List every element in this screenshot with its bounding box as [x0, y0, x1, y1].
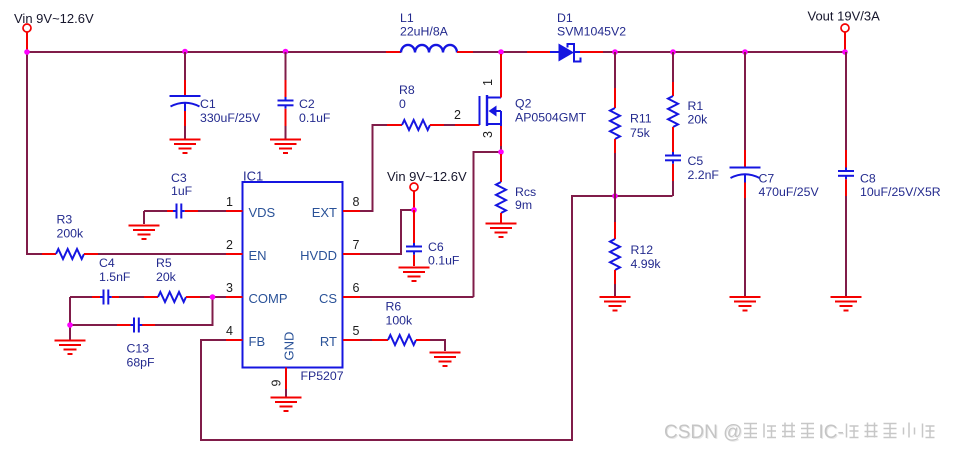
- capacitor C5: [665, 152, 681, 181]
- diode D1: [527, 43, 603, 63]
- svg-text:C4: C4: [99, 256, 115, 270]
- resistor R6: [372, 335, 430, 345]
- junction: [24, 49, 30, 55]
- label C5: [688, 154, 720, 182]
- svg-text:CSDN @: CSDN @: [664, 422, 742, 443]
- svg-text:1: 1: [226, 195, 233, 209]
- resistor R3: [42, 249, 98, 259]
- label R11: [630, 112, 652, 140]
- svg-text:2.2nF: 2.2nF: [688, 168, 720, 182]
- resistor R1: [668, 82, 678, 152]
- svg-text:FP5207: FP5207: [301, 369, 344, 383]
- ground: [430, 353, 461, 367]
- svg-text:1uF: 1uF: [171, 184, 193, 198]
- label R3: [57, 213, 85, 241]
- svg-text:VDS: VDS: [249, 205, 276, 220]
- port Vin 2: [410, 183, 418, 208]
- wire R1 branch: [672, 52, 674, 196]
- svg-text:R6: R6: [386, 300, 402, 314]
- junction: [742, 49, 748, 55]
- junction: [283, 49, 289, 55]
- ground: [831, 297, 862, 311]
- svg-text:8: 8: [353, 195, 360, 209]
- pin 4 FB: [226, 324, 265, 349]
- svg-text:Vin 9V~12.6V: Vin 9V~12.6V: [387, 169, 467, 184]
- label C8: [860, 172, 941, 200]
- svg-text:R5: R5: [156, 256, 172, 270]
- wire CS row: [360, 296, 474, 298]
- svg-text:1: 1: [481, 79, 495, 86]
- svg-text:5: 5: [353, 324, 360, 338]
- svg-text:1.5nF: 1.5nF: [99, 270, 131, 284]
- svg-text:Q2: Q2: [515, 97, 532, 111]
- svg-text:470uF/25V: 470uF/25V: [759, 185, 820, 199]
- svg-text:20k: 20k: [156, 270, 177, 284]
- label R6: [386, 300, 414, 328]
- wire top rail: [27, 51, 845, 53]
- wire COMP row and C13 loop: [70, 297, 226, 340]
- resistor Rcs: [496, 154, 506, 223]
- label C4: [99, 256, 131, 284]
- resistor R11: [610, 88, 620, 153]
- capacitor C6: [406, 210, 422, 266]
- transistor Q2: [455, 54, 501, 146]
- ground: [399, 268, 430, 282]
- svg-text:FB: FB: [249, 334, 266, 349]
- svg-text:75k: 75k: [630, 126, 651, 140]
- ground: [271, 398, 302, 412]
- pin 8 EXT: [312, 195, 360, 220]
- label C13: [127, 342, 156, 370]
- capacitor C8: [838, 150, 854, 196]
- svg-text:10uF/25V/X5R: 10uF/25V/X5R: [860, 185, 941, 199]
- wire R11 branch: [614, 52, 616, 196]
- svg-text:4.99k: 4.99k: [631, 257, 662, 271]
- svg-text:R1: R1: [688, 99, 704, 113]
- svg-text:GND: GND: [282, 332, 297, 361]
- svg-text:22uH/8A: 22uH/8A: [400, 25, 449, 39]
- label C7: [759, 172, 820, 200]
- svg-text:200k: 200k: [57, 227, 85, 241]
- junction: [182, 49, 188, 55]
- wire HVDD to Vin port: [360, 210, 414, 254]
- svg-text:2: 2: [226, 238, 233, 252]
- svg-text:AP0504GMT: AP0504GMT: [515, 111, 587, 125]
- wire R8 to Q2 gate: [444, 124, 455, 126]
- junction: [612, 193, 618, 199]
- ground: [170, 140, 201, 154]
- svg-text:4: 4: [226, 324, 233, 338]
- svg-text:330uF/25V: 330uF/25V: [200, 111, 261, 125]
- svg-text:R3: R3: [57, 213, 73, 227]
- svg-text:D1: D1: [557, 11, 573, 25]
- wire RT to R6 and ground: [360, 340, 445, 351]
- svg-text:C3: C3: [171, 171, 187, 185]
- svg-text:HVDD: HVDD: [300, 248, 337, 263]
- wire left vertical and R3 row: [27, 52, 226, 254]
- label C6: [428, 240, 460, 268]
- pin 2 EN: [226, 238, 267, 263]
- svg-text:3: 3: [226, 281, 233, 295]
- svg-text:IC-: IC-: [819, 422, 844, 443]
- svg-text:R8: R8: [399, 83, 415, 97]
- junction: [67, 322, 73, 328]
- junction: [498, 149, 504, 155]
- label L1: [400, 11, 449, 39]
- svg-text:RT: RT: [320, 334, 337, 349]
- pin 6 CS: [319, 281, 360, 306]
- label C1: [200, 97, 261, 125]
- pin 3 COMP: [226, 281, 288, 306]
- svg-text:R11: R11: [630, 112, 652, 126]
- resistor R12: [610, 222, 620, 284]
- svg-text:Rcs: Rcs: [515, 185, 536, 199]
- svg-text:0.1uF: 0.1uF: [299, 111, 331, 125]
- wire C1 branch: [184, 52, 186, 140]
- svg-text:7: 7: [353, 238, 360, 252]
- resistor R5: [144, 292, 200, 302]
- label D1: [557, 11, 626, 39]
- wire C3 left to ground: [144, 211, 226, 224]
- svg-text:EN: EN: [249, 248, 267, 263]
- junction: [411, 207, 417, 213]
- svg-text:C7: C7: [759, 172, 775, 186]
- svg-text:C5: C5: [688, 154, 704, 168]
- ground: [600, 297, 631, 311]
- svg-text:3: 3: [481, 131, 495, 138]
- label Rcs: [515, 185, 536, 212]
- wire FB feedback loop: [201, 196, 673, 440]
- label C2: [299, 97, 331, 125]
- capacitor C2: [278, 80, 294, 126]
- junction: [612, 49, 618, 55]
- label R12: [631, 243, 662, 271]
- port Vout: [841, 24, 849, 50]
- wire Q2 source to CS: [474, 146, 502, 297]
- svg-text:EXT: EXT: [312, 205, 337, 220]
- svg-text:Vout 19V/3A: Vout 19V/3A: [808, 9, 881, 24]
- wire C8 branch: [845, 52, 847, 297]
- svg-text:C1: C1: [200, 97, 216, 111]
- label R5: [156, 256, 177, 284]
- watermark: [664, 422, 935, 444]
- svg-text:100k: 100k: [386, 314, 414, 328]
- capacitor C3: [167, 204, 198, 219]
- resistor R8: [387, 120, 444, 130]
- capacitor C4: [92, 290, 119, 305]
- svg-text:9: 9: [270, 379, 284, 386]
- svg-text:0: 0: [399, 97, 406, 111]
- label Q2: [515, 97, 587, 125]
- wire C7 branch: [744, 52, 746, 297]
- svg-text:C13: C13: [127, 342, 150, 356]
- svg-text:SVM1045V2: SVM1045V2: [557, 25, 626, 39]
- label C3: [171, 171, 193, 198]
- wire EXT to R8: [360, 125, 387, 211]
- ground: [270, 140, 301, 154]
- capacitor C1: [170, 80, 201, 126]
- wire C2 branch: [285, 52, 287, 140]
- svg-text:IC1: IC1: [243, 169, 263, 184]
- inductor L1: [386, 45, 473, 53]
- svg-text:C2: C2: [299, 97, 315, 111]
- pin 1 VDS: [226, 195, 276, 220]
- svg-text:R12: R12: [631, 243, 654, 257]
- label R8: [399, 83, 415, 111]
- junction: [842, 49, 848, 55]
- port Vin: [23, 24, 31, 50]
- svg-text:2: 2: [454, 108, 461, 122]
- svg-text:C6: C6: [428, 240, 444, 254]
- capacitor C13: [117, 318, 155, 333]
- svg-text:0.1uF: 0.1uF: [428, 254, 460, 268]
- junction: [210, 294, 216, 300]
- svg-text:COMP: COMP: [249, 291, 288, 306]
- label R1: [688, 99, 709, 127]
- svg-text:9m: 9m: [515, 198, 532, 212]
- svg-text:6: 6: [353, 281, 360, 295]
- ground: [730, 297, 761, 311]
- pin 7 HVDD: [300, 238, 360, 263]
- svg-text:68pF: 68pF: [127, 356, 156, 370]
- wire R12 branch: [614, 196, 616, 297]
- ground: [486, 224, 517, 238]
- junction: [498, 49, 504, 55]
- svg-text:L1: L1: [400, 11, 414, 25]
- ground: [55, 341, 86, 355]
- IC IC1 box: [243, 182, 343, 368]
- junction: [670, 49, 676, 55]
- capacitor C7: [730, 150, 761, 198]
- svg-text:CS: CS: [319, 291, 337, 306]
- svg-text:C8: C8: [860, 172, 876, 186]
- svg-text:20k: 20k: [688, 113, 709, 127]
- ground: [129, 226, 160, 240]
- pin 5 RT: [320, 324, 360, 349]
- pin 9 GND: [270, 332, 297, 397]
